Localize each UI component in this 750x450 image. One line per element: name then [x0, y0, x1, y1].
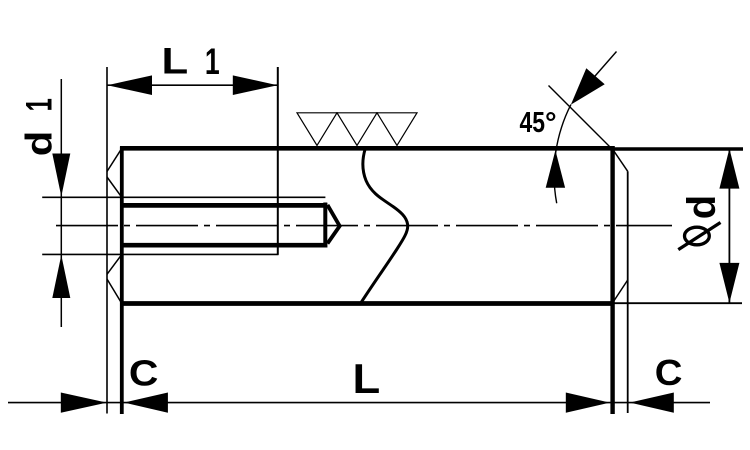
left end lower chamfer: [107, 279, 122, 304]
svg-text:L: L: [353, 355, 381, 402]
label phi-d: diameter symbol slash: [678, 223, 720, 250]
45-degree arc arrow (points up at top edge): [546, 150, 565, 188]
svg-text:d: d: [18, 131, 59, 157]
svg-text:°: °: [545, 107, 557, 139]
dimension L1: dimension line: [107, 84, 278, 86]
right end upper chamfer: [613, 149, 628, 171]
left chamfer transition edge / C extension line: [120, 147, 124, 415]
surface finish triangle 3: [377, 113, 417, 146]
dimension C left: outer arrow: [61, 393, 107, 413]
svg-text:45: 45: [520, 105, 545, 138]
centerline (dash-dot): [56, 225, 672, 227]
label phi-d: diameter symbol circle: [685, 227, 710, 245]
thread hole end wall: [323, 203, 327, 248]
bottom dimension line (C / L / C): [8, 402, 710, 404]
45-degree leader tail line: [592, 52, 617, 80]
dimension d1: lower arrow: [52, 255, 70, 298]
dimension L1: right arrow: [233, 75, 278, 95]
pin body top edge: [120, 146, 613, 151]
bottom extension line to phi-d dimension: [614, 302, 742, 304]
drill point cone: [328, 205, 340, 244]
thread hole lower wall (minor dia, thick): [121, 243, 328, 248]
thread major dia upper thin line + d1 extension: [42, 196, 325, 198]
surface finish triangle 2: [337, 113, 377, 146]
dimension d1: upper arrow: [52, 154, 70, 197]
svg-text:1: 1: [205, 41, 220, 82]
left end upper chamfer: [107, 148, 122, 171]
45-degree chamfer construction line: [549, 86, 613, 150]
45-degree dimension arc: [554, 105, 571, 204]
dimension C left: inner arrow: [124, 393, 168, 413]
right end lower chamfer: [613, 280, 628, 303]
svg-text:L: L: [162, 40, 189, 82]
svg-text:d: d: [680, 195, 724, 219]
svg-text:C: C: [129, 354, 159, 395]
dimension C right: inner arrow: [630, 393, 674, 413]
svg-text:C: C: [655, 352, 683, 393]
thread hole upper wall (minor dia, thick): [121, 203, 328, 208]
top edge extension line to phi-d dimension: [613, 147, 744, 150]
right chamfer transition edge / C extension line: [610, 146, 614, 414]
dimension L1: right extension line: [277, 67, 279, 255]
svg-text:1: 1: [18, 98, 60, 111]
thread major dia lower thin line + d1 extension: [42, 253, 278, 255]
45-degree leader arrow: [571, 68, 605, 104]
dimension phi-d: bottom arrow: [719, 263, 739, 303]
pin body bottom edge: [120, 301, 613, 306]
right end face / C extension line: [627, 171, 629, 413]
left end face / L extension line: [106, 67, 108, 414]
thread entrance countersink upper: [107, 177, 122, 197]
thread entrance countersink lower: [107, 254, 122, 274]
dimension L1: left arrow: [107, 75, 152, 95]
dimension phi-d: dimension line: [728, 148, 730, 303]
dimension d1: leader line: [60, 79, 62, 327]
break line (S-curve): [360, 149, 408, 306]
dimension phi-d: top arrow: [719, 149, 739, 189]
surface finish triangle 1: [297, 113, 337, 146]
dimension C right: outer arrow: [566, 393, 610, 413]
